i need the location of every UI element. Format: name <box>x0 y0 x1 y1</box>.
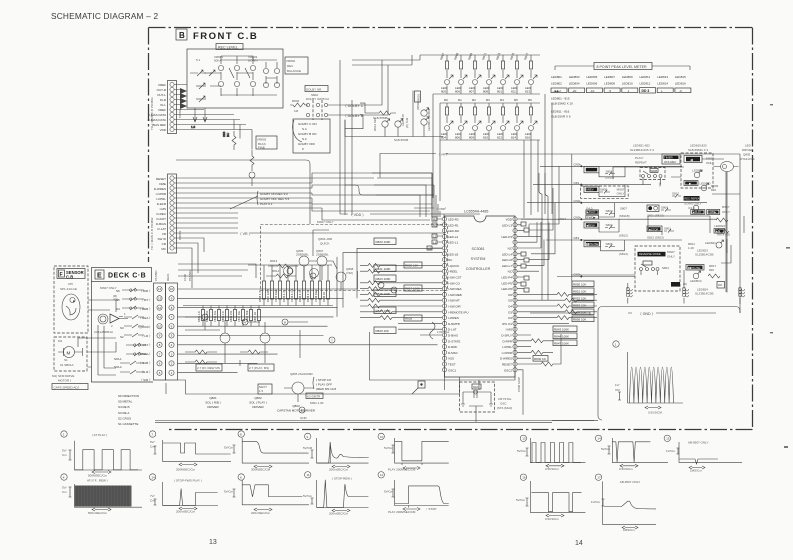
op-amp IC1 LB9051A <box>98 314 108 324</box>
svg-text:15: 15 <box>666 437 670 441</box>
K2-DMTR box <box>306 393 323 399</box>
svg-text:LED808: LED808 <box>604 82 615 86</box>
svg-text:M1: M1 <box>58 339 62 343</box>
svg-text:D-BIAS: D-BIAS <box>156 222 166 226</box>
svg-text:C63: C63 <box>574 181 580 185</box>
svg-text:R828: R828 <box>405 317 413 321</box>
svg-text:LED-P5: LED-P5 <box>501 281 512 285</box>
svg-text:D-STATE: D-STATE <box>448 339 460 343</box>
svg-text:QUICK: QUICK <box>320 242 330 246</box>
svg-text:LED-L4: LED-L4 <box>502 252 513 256</box>
svg-text:CN3•: CN3• <box>574 199 581 203</box>
svg-text:R843 100K: R843 100K <box>554 327 569 331</box>
LED row 1: resistors + leds <box>447 55 531 78</box>
svg-text:(D): (D) <box>683 282 687 286</box>
crystal REF box <box>472 384 481 389</box>
svg-text:13: 13 <box>158 297 162 301</box>
svg-text:R812 820: R812 820 <box>373 118 377 131</box>
svg-text:5V/Cm: 5V/Cm <box>224 490 234 494</box>
resistor R vertical <box>250 150 254 171</box>
svg-text:S803: S803 <box>606 209 613 213</box>
bottom bus row1 <box>433 85 540 198</box>
svg-text:C811 10u: C811 10u <box>237 310 241 322</box>
svg-text:BALANCE: BALANCE <box>287 69 301 73</box>
dashed box around row2 with MS07 <box>581 186 629 198</box>
svg-text:LED803: LED803 <box>569 75 580 79</box>
svg-text:SLB-55MG X 2: SLB-55MG X 2 <box>688 148 709 152</box>
contact arrows column <box>136 289 152 382</box>
svg-text:AB-9507 ONLY: AB-9507 ONLY <box>620 480 640 484</box>
svg-text:LED807: LED807 <box>604 75 615 79</box>
row5: PAUSE button <box>584 241 601 247</box>
svg-text:〈 DOLBY C: 〈 DOLBY C <box>343 103 364 108</box>
svg-text:-10: -10 <box>590 89 595 93</box>
svg-text:D-SPLY: D-SPLY <box>501 334 512 338</box>
svg-text:VSS: VSS <box>448 357 454 361</box>
svg-text:〈QUICK〉: 〈QUICK〉 <box>136 325 152 329</box>
svg-text:806: 806 <box>455 135 460 139</box>
svg-text:8 POINT PEAK LEVEL METER: 8 POINT PEAK LEVEL METER <box>597 65 648 69</box>
led labels row2 <box>441 132 532 139</box>
svg-text:0.5US/Cm: 0.5US/Cm <box>545 517 559 521</box>
row2 top labels <box>444 98 532 102</box>
svg-text:1V/: 1V/ <box>615 383 620 387</box>
svg-text:REC·REPEAT: REC·REPEAT <box>684 197 701 201</box>
switch terminals <box>130 289 141 355</box>
resistor comb rails <box>183 265 333 306</box>
plot 9: spike decay <box>303 433 369 471</box>
plot 5: STOP-FWD PLAY <box>149 474 218 514</box>
svg-text:CN3•: CN3• <box>574 215 581 219</box>
svg-text:LED813: LED813 <box>657 75 668 79</box>
svg-text:SC3081: SC3081 <box>472 247 485 251</box>
LED name rows <box>551 75 686 86</box>
svg-text:R823 100K: R823 100K <box>376 277 391 281</box>
LED817 <box>382 121 388 127</box>
lower hanging resistors (comb) <box>203 306 259 327</box>
svg-text:GOLBY B ON: GOLBY B ON <box>298 132 316 136</box>
svg-text:10: 10 <box>380 435 384 439</box>
svg-text:S811 (S813): S811 (S813) <box>647 214 664 218</box>
svg-text:DD 3: DD 3 <box>642 89 650 93</box>
svg-text:5V/: 5V/ <box>150 440 155 444</box>
svg-text:▶PLAY: ▶PLAY <box>587 210 596 214</box>
svg-text:14: 14 <box>151 475 155 479</box>
svg-text:LED811: LED811 <box>640 75 651 79</box>
svg-text:ONLY: ONLY <box>667 255 675 259</box>
wires IC to deck connector <box>178 271 438 373</box>
wavy resistor wires to IC <box>360 263 442 335</box>
svg-text:▮▮PAUSE: ▮▮PAUSE <box>586 242 598 246</box>
svg-text:14: 14 <box>575 540 583 547</box>
LED driver transistor Q805 <box>721 162 734 172</box>
svg-text:S5 METAL: S5 METAL <box>118 400 133 404</box>
svg-text:( AT PLAY ): ( AT PLAY ) <box>92 433 107 437</box>
brace wires <box>555 66 690 70</box>
svg-text:LED-L5: LED-L5 <box>502 258 513 262</box>
svg-text:SW W: SW W <box>158 237 167 241</box>
svg-text:811: 811 <box>511 89 516 93</box>
svg-text:L1: L1 <box>433 240 437 244</box>
svg-text:BIAS REF: BIAS REF <box>152 123 166 127</box>
svg-text:I-MS: I-MS <box>160 207 166 211</box>
svg-text:D-MSC: D-MSC <box>448 351 459 355</box>
right of IC: wires and resistor boxes <box>517 281 597 366</box>
svg-text:O5: O5 <box>508 299 512 303</box>
svg-text:5V/Cm: 5V/Cm <box>384 490 394 494</box>
S-legend text block <box>118 394 139 426</box>
GND trunk right <box>552 307 740 421</box>
svg-text:R2: R2 <box>433 217 437 221</box>
deck switch rows <box>96 288 146 382</box>
svg-text:D-WRES: D-WRES <box>500 357 512 361</box>
svg-text:809: 809 <box>469 135 474 139</box>
svg-text:REPEAT: REPEAT <box>635 161 647 165</box>
resistor bodies row1 <box>446 61 533 69</box>
svg-text:SL23B14CDS X 2: SL23B14CDS X 2 <box>630 148 654 152</box>
dolby mode text block <box>293 120 303 142</box>
svg-text:FA10: FA10 <box>183 274 187 281</box>
svg-text:VREF: VREF <box>158 83 166 87</box>
pot arrows <box>190 70 215 102</box>
svg-text:R846 1K: R846 1K <box>322 292 326 302</box>
svg-text:S6 DIRECTION: S6 DIRECTION <box>118 394 139 398</box>
svg-text:GOLBY C ON: GOLBY C ON <box>298 122 317 126</box>
svg-text:S1 CASSETTE: S1 CASSETTE <box>118 422 138 426</box>
LED row 2 bus <box>440 103 540 201</box>
svg-text:O6: O6 <box>508 293 512 297</box>
svg-text:P1N801: P1N801 <box>154 270 158 281</box>
svg-text:C808 100P: C808 100P <box>517 377 521 392</box>
svg-text:R2: R2 <box>472 98 476 102</box>
svg-text:SYSTEM: SYSTEM <box>471 257 486 261</box>
REC LEVEL label box <box>216 44 243 50</box>
svg-text:BU: BU <box>226 133 230 137</box>
svg-text:〈 VR 〉: 〈 VR 〉 <box>437 153 449 157</box>
svg-text:5V/CM: 5V/CM <box>303 446 313 450</box>
svg-text:7V/: 7V/ <box>150 494 155 498</box>
row2: AREV button <box>584 186 599 192</box>
svg-text:S2 CROS: S2 CROS <box>118 416 131 420</box>
svg-text:-0: -0 <box>679 89 682 93</box>
resistor labels row1 rotated <box>439 52 529 60</box>
svg-text:■STOP: ■STOP <box>649 227 658 231</box>
dolby annotation <box>230 196 258 209</box>
svg-text:▶/■: ▶/■ <box>716 229 721 233</box>
transistor Q808 <box>260 333 270 343</box>
svg-text:S804: S804 <box>606 223 613 227</box>
svg-text:(S810): (S810) <box>605 176 614 180</box>
svg-text:R821 100K: R821 100K <box>376 267 391 271</box>
svg-text:LED-R2: LED-R2 <box>448 218 459 222</box>
svg-text:S3: S3 <box>120 326 124 330</box>
svg-text:〈 DIR 〉: 〈 DIR 〉 <box>139 289 152 293</box>
IC initial annotation <box>430 322 450 339</box>
svg-text:FWD▶: FWD▶ <box>587 215 596 219</box>
svg-text:LED-M2: LED-M2 <box>448 229 459 233</box>
pin labels <box>154 177 167 251</box>
svg-text:820: 820 <box>709 268 714 272</box>
M1 motor dashed box <box>54 337 87 371</box>
connector pins <box>170 82 174 131</box>
svg-text:Q805: Q805 <box>743 153 751 157</box>
svg-text:MS07 ONLY: MS07 ONLY <box>317 220 334 224</box>
upper rail wires <box>178 264 256 278</box>
svg-text:OUT-L: OUT-L <box>157 93 166 97</box>
svg-text:P1N802: P1N802 <box>188 270 192 281</box>
svg-text:VDD: VDD <box>506 218 513 222</box>
connector CN802 body <box>168 81 177 134</box>
circled small numbers row above deck <box>378 282 397 293</box>
svg-text:(S814): (S814) <box>619 252 628 256</box>
svg-text:LED819,820: LED819,820 <box>690 144 707 148</box>
svg-text:I-CPRR: I-CPRR <box>502 351 513 355</box>
svg-text:◀REW: ◀REW <box>586 223 595 227</box>
svg-text:S.4: S.4 <box>302 137 307 141</box>
svg-text:17: 17 <box>597 476 601 480</box>
svg-text:C63: C63 <box>574 236 580 240</box>
svg-text:R6: R6 <box>528 98 532 102</box>
svg-text:OFF-REC: OFF-REC <box>664 160 676 164</box>
stop play annotation <box>316 378 336 391</box>
MSD box <box>258 384 272 394</box>
svg-text:808: 808 <box>483 89 488 93</box>
wires from connector to rec block with buffer arrows <box>174 85 252 130</box>
svg-text:5V/Cm: 5V/Cm <box>516 498 526 502</box>
E DECK C.B header box <box>92 268 152 282</box>
svg-text:〈 DOLBY B: 〈 DOLBY B <box>343 113 364 118</box>
svg-text:〈REEL〉: 〈REEL〉 <box>138 352 152 356</box>
right long verticals <box>726 160 740 313</box>
svg-text:R851 10K: R851 10K <box>573 289 586 293</box>
sensor dashed box <box>54 266 88 333</box>
svg-text:D-RMTB: D-RMTB <box>448 322 460 326</box>
svg-text:0.5US/Cm: 0.5US/Cm <box>545 467 559 471</box>
svg-text:〈 GND 〉: 〈 GND 〉 <box>638 311 655 316</box>
wires from OSC pins down <box>370 332 516 390</box>
svg-text:I-SW CO: I-SW CO <box>448 281 461 285</box>
svg-text:LED-P6: LED-P6 <box>501 287 512 291</box>
svg-text:LED801 LED802: LED801 LED802 <box>427 108 431 131</box>
small specks on right margin <box>770 104 790 448</box>
svg-text:Q804~806: Q804~806 <box>318 237 332 241</box>
svg-text:-20: -20 <box>572 89 577 93</box>
svg-text:805: 805 <box>441 89 446 93</box>
wires sensor to deck <box>88 300 116 312</box>
pin numbers <box>158 287 174 375</box>
svg-text:ONLY: ONLY <box>617 192 625 196</box>
svg-text:S807: S807 <box>620 207 627 211</box>
meter scale segment boxes <box>551 88 691 93</box>
svg-text:L'INITIAL: L'INITIAL <box>437 330 450 334</box>
svg-text:CAPS SPEED ADJ: CAPS SPEED ADJ <box>54 385 80 389</box>
wires to dolby outputs <box>328 105 342 115</box>
svg-text:OSC2: OSC2 <box>504 368 513 372</box>
svg-text:─▶▶2: ─▶▶2 <box>552 89 562 93</box>
svg-text:DTA114YS: DTA114YS <box>740 157 755 161</box>
svg-text:C.B: C.B <box>66 275 73 280</box>
svg-text:200MSEC/Cm: 200MSEC/Cm <box>176 468 196 472</box>
svg-text:LED802: LED802 <box>551 82 562 86</box>
plot 8 <box>224 431 309 472</box>
svg-text:FWD▶: FWD▶ <box>708 210 717 214</box>
svg-text:SL23B14CSB: SL23B14CSB <box>695 292 714 296</box>
svg-text:VR803: VR803 <box>257 138 267 142</box>
svg-text:LED806: LED806 <box>586 82 597 86</box>
caps speed adj box <box>52 384 88 390</box>
svg-text:SL25B14CSB: SL25B14CSB <box>695 253 714 257</box>
svg-text:810: 810 <box>483 135 488 139</box>
row2 bottom wires <box>440 131 540 140</box>
section B label <box>176 29 258 42</box>
R801 rotated label <box>415 91 421 102</box>
svg-text:R853 10K: R853 10K <box>573 303 586 307</box>
svg-text:LED-R1: LED-R1 <box>448 223 459 227</box>
svg-text:SLB-25VR X 6: SLB-25VR X 6 <box>551 115 571 119</box>
svg-text:C806 4.7uF: C806 4.7uF <box>290 288 294 302</box>
svg-text:200mSEC/Cm: 200mSEC/Cm <box>176 510 196 514</box>
plot 4: AT FF/REW <box>61 474 142 515</box>
svg-text:14: 14 <box>158 287 162 291</box>
svg-text:〈 MT 〉: 〈 MT 〉 <box>140 298 152 302</box>
wires out of CN803 <box>174 173 440 288</box>
row tags CN <box>574 163 581 277</box>
frame border dash-dot <box>149 28 753 430</box>
svg-text:VDD: VDD <box>160 128 167 132</box>
LED804 <box>693 273 699 279</box>
svg-text:816: 816 <box>525 135 530 139</box>
svg-text:I-CPRL: I-CPRL <box>502 345 512 349</box>
svg-text:R4: R4 <box>500 98 504 102</box>
svg-text:LED821-822: LED821-822 <box>633 144 650 148</box>
svg-text:▮▮PAUSE: ▮▮PAUSE <box>688 266 700 270</box>
svg-text:D-REC: D-REC <box>157 212 167 216</box>
svg-text:S801: S801 <box>662 266 669 270</box>
LED818 <box>395 121 401 127</box>
plot 13: narrow pulses <box>517 435 585 471</box>
svg-text:R1: R1 <box>458 98 462 102</box>
svg-text:1M: 1M <box>294 109 299 113</box>
svg-text:R0: R0 <box>444 98 448 102</box>
plot 14: two notches <box>595 435 668 471</box>
svg-text:R834 150: R834 150 <box>229 310 233 322</box>
plot 10: PLAY gap <box>378 433 449 471</box>
plot 15: AB-9507 dip <box>664 435 742 472</box>
svg-text:1.2K: 1.2K <box>688 246 694 250</box>
led arrows row1 <box>449 75 537 79</box>
svg-text:5V/Cm: 5V/Cm <box>384 446 394 450</box>
svg-text:1V/Cm: 1V/Cm <box>591 500 601 504</box>
svg-text:I-SW DIR: I-SW DIR <box>448 305 461 309</box>
svg-text:MS07: MS07 <box>667 250 675 254</box>
svg-text:MS07 ONLY: MS07 ONLY <box>100 286 117 290</box>
svg-text:AREV: AREV <box>586 188 594 192</box>
svg-text:IPU O1: IPU O1 <box>502 322 512 326</box>
row1: REC button <box>584 166 599 172</box>
svg-text:K2-DMTR: K2-DMTR <box>307 394 321 398</box>
svg-text:I-WRES: I-WRES <box>448 316 459 320</box>
svg-text:R852 10K: R852 10K <box>573 296 586 300</box>
svg-text:REC: REC <box>287 64 294 68</box>
svg-text:CN803: CN803 <box>178 230 182 240</box>
svg-text:AB-9507 ONLY: AB-9507 ONLY <box>688 441 708 445</box>
svg-text:DME: DME <box>159 182 166 186</box>
PAUSE black right <box>686 265 704 271</box>
svg-text:MOTOR ): MOTOR ) <box>58 379 71 383</box>
svg-text:( STOP 0.8: ( STOP 0.8 <box>316 378 331 382</box>
svg-text:R831 1.8: R831 1.8 <box>197 311 201 322</box>
svg-text:2.7 RV. REW MS: 2.7 RV. REW MS <box>197 366 220 370</box>
svg-text:DRIVER: DRIVER <box>742 148 754 152</box>
LED circles row 2 <box>445 126 534 131</box>
left pin names <box>448 218 469 373</box>
svg-text:S5: S5 <box>116 298 120 302</box>
main mid box outline <box>166 380 460 394</box>
svg-text:LED-L3: LED-L3 <box>502 223 513 227</box>
svg-text:01 SB01A: 01 SB01A <box>60 363 74 367</box>
annotation 2.7 RV REW <box>196 364 222 371</box>
switch tags <box>114 289 124 369</box>
resistor ladder columns inside rec level box <box>221 56 277 96</box>
svg-text:5.1: 5.1 <box>196 58 201 62</box>
switch contacts <box>306 103 327 116</box>
upper transistors <box>284 267 293 276</box>
play arrow button <box>684 181 698 186</box>
svg-text:I-SW REB: I-SW REB <box>448 293 462 297</box>
circled ref numbers <box>202 314 335 343</box>
svg-text:804: 804 <box>441 135 446 139</box>
svg-text:DOLBY SWITCH: DOLBY SWITCH <box>306 97 329 101</box>
svg-text:REF: REF <box>473 385 479 389</box>
svg-text:DRIVER: DRIVER <box>207 405 219 409</box>
svg-text:300MSEC/CM: 300MSEC/CM <box>251 468 271 472</box>
upper hanging resistors (comb) <box>264 265 328 306</box>
svg-text:5V/Cm: 5V/Cm <box>224 446 234 450</box>
svg-text:〈 S/R 〉: 〈 S/R 〉 <box>139 378 152 382</box>
svg-text:10: 10 <box>158 324 162 328</box>
right pin names <box>500 218 513 373</box>
svg-text:D-RPR: D-RPR <box>503 339 513 343</box>
svg-text:FINE: FINE <box>258 146 265 150</box>
VR wire <box>380 154 448 178</box>
svg-text:IN-L: IN-L <box>160 103 166 107</box>
LED at x424 upper <box>421 110 427 116</box>
svg-text:Q801: Q801 <box>209 396 217 400</box>
bus under leds <box>345 91 443 137</box>
svg-text:-5: -5 <box>609 89 612 93</box>
svg-text:S1: S1 <box>64 358 68 362</box>
svg-text:I-REMOTE IPU: I-REMOTE IPU <box>448 310 469 314</box>
svg-text:Q805 2SA1006R: Q805 2SA1006R <box>290 372 314 376</box>
svg-text:AT( F.F...REW ): AT( F.F...REW ) <box>87 479 108 483</box>
small boxes below <box>671 282 680 287</box>
svg-text:5V/Cm: 5V/Cm <box>303 494 313 498</box>
plot 1: AT PLAY <box>61 431 142 478</box>
svg-text:S6: S6 <box>116 289 120 293</box>
Q804 QUICK transistors <box>266 230 354 290</box>
svg-text:R836 4.7K: R836 4.7K <box>298 289 302 302</box>
svg-text:R1: R1 <box>433 223 437 227</box>
svg-text:CPI: CPI <box>68 282 73 286</box>
svg-text:1.5: 1.5 <box>259 389 264 393</box>
svg-text:LED-L8: LED-L8 <box>448 252 459 256</box>
svg-text:S812: S812 <box>672 192 679 196</box>
svg-text:D-EFR: D-EFR <box>157 202 167 206</box>
plot 11: STOP-REW <box>303 472 369 516</box>
svg-text:GOLBY OFF: GOLBY OFF <box>298 142 315 146</box>
svg-text:R3: R3 <box>486 98 490 102</box>
middle column: dual circle box <box>647 205 659 211</box>
